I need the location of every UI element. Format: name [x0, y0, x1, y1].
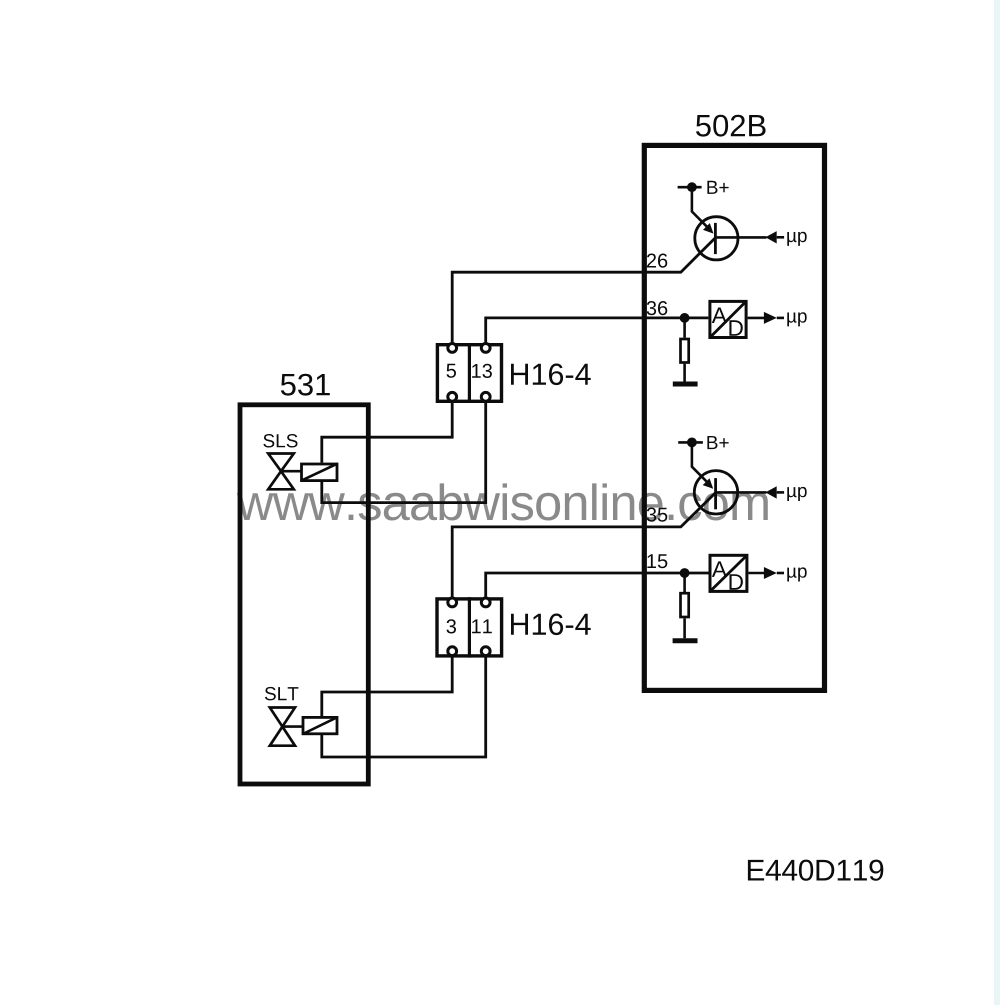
- label 531: [281, 374, 330, 396]
- wire U3 to microprocessor: [716, 491, 767, 494]
- transistor U1 circle: [695, 217, 738, 260]
- pin 5 bottom circle: [448, 392, 457, 401]
- wire stub row1: [777, 236, 784, 239]
- wire 36: H16-4 pin13 top to A/D U2: [486, 318, 709, 343]
- pin 3 circle: [448, 598, 457, 607]
- junction node 15 dot: [680, 568, 690, 578]
- wire U1 to microprocessor: [715, 236, 766, 239]
- connector H16-4 top box: [437, 343, 501, 403]
- B+ arrowhead U3: [703, 478, 714, 489]
- B+ node dot U1: [687, 182, 697, 192]
- valve SLS link to coil: [281, 470, 302, 473]
- label 502B: [696, 115, 766, 137]
- arrowhead to microprocessor row2: [764, 312, 777, 324]
- B+ supply wire into transistor U3: [692, 442, 707, 481]
- pin 13 bottom circle: [481, 392, 490, 401]
- B+ node dot U3: [687, 438, 697, 448]
- wire stub row4: [777, 572, 784, 575]
- watermark www.saabwisonline.com: [237, 483, 768, 520]
- transistor U3 circle: [694, 471, 737, 514]
- wire 35: H16-4 pin3 top to transistor U3: [452, 492, 716, 597]
- A/D converter U4 box: [710, 555, 747, 591]
- B+ label U1: [707, 181, 728, 194]
- label H16-4 top: [511, 364, 591, 386]
- pin 5 circle: [448, 344, 457, 353]
- pin number 5: [447, 364, 457, 378]
- valve SLT bowtie bottom triangle: [270, 727, 295, 746]
- A/D U2 letter A: [712, 308, 727, 324]
- A/D U2 diagonal: [710, 301, 746, 337]
- valve SLS bowtie top triangle: [268, 454, 294, 472]
- B+ label U3: [707, 436, 728, 449]
- junction node 36 dot: [680, 313, 690, 323]
- wire U4 to microprocessor: [748, 572, 764, 575]
- valve SLS bowtie bottom triangle: [268, 471, 294, 489]
- label microprocessor row3: [787, 487, 806, 501]
- node label 35: [647, 508, 668, 522]
- ground G2: [673, 638, 698, 643]
- wire SLS coil bottom to pin13 bottom: [322, 401, 486, 502]
- label H16-4 bottom: [511, 614, 591, 636]
- wire U2 to microprocessor: [748, 317, 765, 320]
- wire SLT coil bottom to pin11 bottom: [322, 656, 486, 757]
- valve SLT bowtie top triangle: [270, 708, 295, 727]
- label microprocessor row1: [787, 232, 806, 246]
- A/D U4 letter A: [712, 561, 727, 577]
- label microprocessor row4: [787, 567, 806, 581]
- arrowhead from microprocessor row3: [765, 486, 776, 498]
- arrowhead to microprocessor row4: [764, 567, 777, 579]
- connector H16-4 bottom box: [437, 597, 502, 657]
- label microprocessor row2: [787, 312, 806, 326]
- node label 26: [647, 254, 667, 268]
- resistor R1 wire bottom: [683, 364, 686, 382]
- wire 15: H16-4 pin11 top to A/D U4: [486, 573, 709, 597]
- coil SLS diagonal: [301, 464, 337, 481]
- B+ stub line U1: [678, 186, 702, 189]
- resistor R1 wire top: [683, 318, 686, 338]
- resistor R2 wire top: [683, 573, 686, 592]
- label SLS: [263, 434, 297, 448]
- pin 13 circle: [481, 344, 490, 353]
- pin number 3: [447, 619, 457, 633]
- right edge scan tint: [994, 0, 1000, 1005]
- pin 11 bottom circle: [481, 647, 490, 656]
- coil SLS: [302, 464, 338, 481]
- box 531: [240, 405, 368, 784]
- pin number 13: [472, 364, 492, 378]
- A/D converter U2 box: [710, 301, 746, 337]
- A/D U4 letter D: [730, 574, 743, 590]
- resistor R1: [681, 339, 689, 363]
- resistor R2: [681, 593, 689, 617]
- wire SLT coil top to pin3 bottom: [322, 656, 452, 718]
- B+ supply wire into transistor U1: [692, 187, 707, 226]
- A/D U4 diagonal: [710, 555, 747, 591]
- resistor R2 wire bottom: [683, 618, 686, 638]
- ground G1: [673, 382, 698, 387]
- pin 11 circle: [481, 598, 490, 607]
- B+ arrowhead U1: [703, 223, 714, 234]
- wire SLS coil top to pin5 bottom: [322, 401, 452, 462]
- wire 26: H16-4 pin5 top to transistor U1: [452, 237, 716, 342]
- box 502B: [644, 145, 824, 690]
- pin number 11: [472, 619, 492, 633]
- valve SLT link to coil: [282, 725, 303, 728]
- coil SLT diagonal: [303, 717, 338, 734]
- wire stub row2: [777, 317, 784, 320]
- transistor U1 bar: [714, 223, 717, 254]
- label E440D119: [748, 860, 883, 881]
- wire stub row3: [777, 491, 784, 494]
- label SLT: [265, 687, 299, 701]
- coil SLT: [303, 717, 337, 733]
- pin 3 bottom circle: [448, 647, 457, 656]
- node label 36: [647, 301, 668, 315]
- transistor U3 bar: [714, 478, 717, 509]
- node label 15: [647, 554, 667, 568]
- arrowhead from microprocessor row1: [765, 231, 776, 243]
- A/D U2 letter D: [729, 320, 742, 336]
- B+ stub line U3: [678, 441, 703, 444]
